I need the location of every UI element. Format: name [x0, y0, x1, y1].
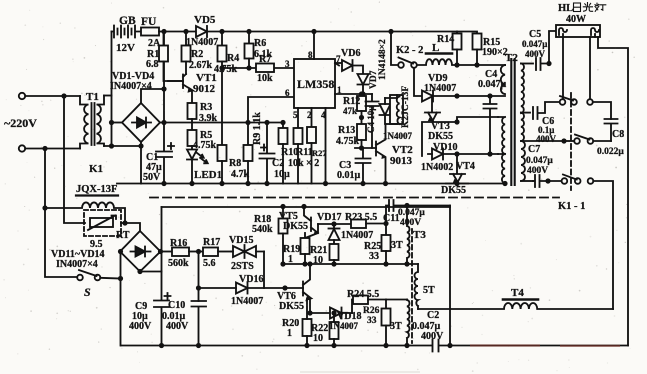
node R20 rail	[304, 343, 309, 348]
svg-text:400V: 400V	[129, 321, 152, 332]
thermistor RT dashed box	[84, 210, 121, 236]
svg-text:560k: 560k	[168, 258, 189, 269]
wire N to T1	[25, 148, 80, 150]
resistor R12	[357, 94, 366, 124]
resistor R22	[330, 313, 339, 346]
svg-text:12V: 12V	[116, 42, 135, 54]
diode VD6	[335, 60, 363, 74]
svg-text:4.75k: 4.75k	[193, 140, 217, 151]
node C2 top	[264, 120, 269, 125]
svg-text:6: 6	[285, 88, 290, 98]
diode VD17	[329, 229, 340, 241]
wire node A down to RT	[64, 96, 85, 223]
svg-text:3T: 3T	[390, 321, 402, 332]
node S join	[118, 276, 123, 281]
svg-text:1: 1	[337, 85, 342, 95]
capacitor C4	[484, 96, 497, 154]
svg-text:RT: RT	[116, 230, 130, 241]
transformer T1 primary	[80, 96, 89, 149]
svg-text:9013: 9013	[390, 155, 413, 167]
svg-text:3: 3	[285, 59, 290, 69]
wire VT2 base	[355, 147, 376, 149]
wire row2 right to C8	[593, 140, 611, 142]
capacitor C2 electrolytic	[260, 123, 275, 184]
node R22 rail	[331, 343, 336, 348]
svg-text:R27: R27	[312, 148, 327, 158]
wire row3 right to T4 line	[593, 181, 613, 309]
capacitor C6	[533, 102, 560, 119]
node R4 bottom feed	[219, 65, 224, 70]
node dc+ at y122	[161, 120, 166, 125]
op-amp pin4 wire to ground	[325, 108, 327, 184]
diode VD7	[358, 74, 369, 94]
wire T2 secondary top tap	[521, 63, 533, 65]
diode VD18	[330, 308, 352, 319]
op-amp pin2 wire to R27	[311, 108, 313, 127]
resistor R4	[218, 32, 227, 146]
node R8 gnd	[219, 181, 224, 186]
resistor R18	[279, 207, 288, 265]
node pin8 rail	[311, 29, 316, 34]
svg-text:10k: 10k	[257, 73, 273, 84]
svg-text:0.047μ: 0.047μ	[478, 79, 507, 90]
svg-text:C10: C10	[168, 300, 185, 311]
resistor R10	[279, 123, 288, 184]
svg-text:R8: R8	[229, 158, 241, 169]
wire K2 coil bottom to VT2 collector	[386, 123, 398, 125]
resistor R11	[294, 128, 303, 184]
svg-text:DK55: DK55	[279, 301, 304, 312]
wire VD9 anode from K2-2	[414, 68, 422, 96]
node R10 top	[280, 120, 285, 125]
node R2 top	[183, 29, 188, 34]
svg-text:LM358: LM358	[297, 77, 334, 91]
op-amp pin8 wire	[313, 32, 315, 60]
wire battery negative vertical x111.5	[111, 32, 113, 147]
relay K1 coil	[45, 202, 125, 223]
svg-text:4: 4	[321, 110, 326, 120]
node 3T upper top	[404, 203, 409, 208]
svg-text:50V: 50V	[143, 172, 161, 183]
svg-text:T2: T2	[505, 52, 518, 64]
transformer T3 winding 3T lower	[407, 300, 409, 346]
node 3T upper bottom	[404, 261, 409, 266]
DK55 module boundary dashed	[150, 197, 559, 199]
inductor T4	[418, 300, 613, 310]
node VD10 line x457	[454, 151, 459, 156]
wire T2 secondary bottom tap	[521, 180, 533, 182]
svg-text:FU: FU	[141, 16, 157, 28]
node VD7 cathode	[360, 91, 365, 96]
resistor R17	[203, 248, 231, 257]
wire bridge2 left down to rail	[120, 252, 122, 346]
inductor L	[417, 54, 505, 66]
svg-text:1N4007: 1N4007	[383, 131, 412, 141]
svg-text:1: 1	[287, 328, 292, 339]
node battery neg at dc-	[109, 120, 114, 125]
node R18 bottom mid-rail	[280, 261, 285, 266]
ground rail y183.5	[117, 183, 505, 185]
svg-text:R17: R17	[203, 237, 220, 248]
contact row3	[562, 175, 594, 184]
wire bridge1 left vertex	[112, 122, 123, 124]
svg-text:K1 - 1: K1 - 1	[558, 201, 585, 212]
svg-text:C7: C7	[528, 144, 540, 155]
K1-1 linkage dash line	[570, 93, 572, 190]
svg-text:0.01μ: 0.01μ	[337, 170, 361, 181]
svg-text:~220V: ~220V	[4, 116, 37, 130]
svg-text:0.047μ: 0.047μ	[398, 208, 425, 218]
node VD18 cathode R22	[331, 310, 336, 315]
wire VT6 emitter y313	[310, 312, 330, 314]
resistor R9	[244, 145, 253, 184]
svg-text:9012: 9012	[193, 83, 216, 95]
resistor R16	[172, 248, 203, 257]
node pin4 gnd	[323, 181, 328, 186]
bridge VD11-VD14	[120, 231, 161, 272]
transistor VT1 arrow fill	[188, 88, 193, 92]
node VD17 top	[331, 221, 336, 226]
terminal N (~220V bottom)	[19, 145, 25, 151]
svg-text:4.7k: 4.7k	[231, 169, 250, 180]
wire bridge1 top vertex up	[141, 89, 164, 103]
wire dc+ x164 vertical	[163, 32, 165, 152]
wire op-amp +input y68	[222, 67, 293, 69]
svg-text:IN4007×4: IN4007×4	[56, 259, 98, 270]
svg-text:1N4007: 1N4007	[424, 83, 456, 94]
bridge VD1-VD4	[122, 103, 160, 142]
node bridge2 left	[118, 249, 123, 254]
svg-text:400V: 400V	[527, 166, 548, 176]
op-amp pin7 wire	[335, 62, 342, 64]
lamp HL filament right	[591, 28, 599, 37]
switch S	[77, 270, 120, 280]
node C10 top feed	[196, 285, 201, 290]
transformer T2 primary lower winding	[498, 117, 505, 183]
fuse FU	[141, 28, 164, 36]
svg-text:C2: C2	[427, 310, 439, 321]
wire bridge1 bottom vertex down to ground rail	[140, 142, 142, 184]
svg-text:R14: R14	[437, 34, 454, 45]
capacitor C11	[389, 200, 450, 211]
node R23 out	[383, 221, 388, 226]
transistor VT4	[446, 154, 468, 184]
node B (x45 tap)	[42, 146, 47, 151]
scan smudge on rail	[470, 344, 620, 346]
node R4 top	[219, 29, 224, 34]
node R6 bottom	[246, 65, 251, 70]
svg-text:JQX-13F: JQX-13F	[76, 184, 117, 195]
wire RT right to bridge2 top	[121, 223, 140, 231]
svg-text:VD10: VD10	[433, 142, 457, 153]
transformer T1 secondary	[97, 96, 105, 147]
transformer T2 secondary winding	[521, 64, 525, 182]
node VD10 line x490	[487, 151, 492, 156]
node R12-R13 junction	[359, 115, 364, 120]
svg-text:S: S	[84, 285, 91, 299]
relay K2 coil bumps	[397, 97, 400, 125]
node R25 bottom	[383, 261, 388, 266]
node bridge1 ac bottom	[138, 143, 143, 148]
svg-text:R7: R7	[259, 54, 271, 65]
transistor VT3	[422, 96, 457, 156]
resistor R21	[330, 244, 339, 264]
svg-text:GB: GB	[119, 15, 136, 27]
wire dc+ feed to op-amp area y122	[160, 122, 283, 124]
diac VD15	[231, 245, 264, 258]
thermistor RT	[88, 216, 116, 231]
transformer T2 core	[511, 59, 514, 185]
op-amp pin1 wire	[335, 93, 372, 95]
capacitor C4b	[366, 94, 379, 148]
svg-text:DK55: DK55	[428, 131, 453, 142]
transistor VT2	[376, 124, 386, 184]
svg-text:10: 10	[313, 255, 323, 266]
svg-text:6.8: 6.8	[146, 59, 159, 70]
lamp HL tube	[556, 25, 600, 37]
svg-text:5.6: 5.6	[203, 258, 216, 269]
svg-text:3.9k: 3.9k	[199, 113, 218, 124]
svg-text:T4: T4	[511, 287, 524, 299]
svg-text:LED1: LED1	[194, 169, 222, 181]
wire T1 secondary bottom to bridge ac2	[104, 145, 141, 147]
resistor R20	[303, 299, 312, 346]
resistor R8	[218, 145, 227, 184]
svg-text:T1: T1	[86, 91, 99, 103]
node R9 gnd	[245, 181, 250, 186]
node C7 out	[545, 178, 550, 183]
diode VD10	[428, 149, 498, 160]
resistor R25	[382, 224, 391, 265]
wire lamp pin3 down to contact row1 right	[589, 37, 591, 99]
svg-text:K2JC-13F: K2JC-13F	[401, 86, 411, 128]
node T1s bottom junction	[109, 143, 114, 148]
capacitor C5	[536, 58, 549, 70]
svg-text:4.75k: 4.75k	[214, 64, 238, 75]
svg-text:C2: C2	[272, 158, 284, 169]
node 3T lower rail	[404, 343, 409, 348]
diode VD5	[196, 26, 207, 37]
svg-text:R3: R3	[200, 102, 212, 113]
svg-text:DK55: DK55	[441, 185, 466, 196]
svg-text:33: 33	[369, 251, 379, 262]
svg-text:3T: 3T	[391, 240, 403, 251]
capacitor C2 series in rail	[433, 340, 439, 352]
node LED gnd	[189, 181, 194, 186]
svg-text:VD17: VD17	[317, 212, 341, 223]
wire T1 secondary top to battery rail	[104, 95, 112, 97]
svg-text:HL: HL	[558, 3, 573, 14]
svg-text:10μ: 10μ	[274, 169, 290, 180]
lamp HL filament left	[559, 28, 567, 37]
scan speckle noise	[210, 57, 211, 58]
transformer T3 core dashed	[411, 229, 413, 343]
transformer T3 winding 3T upper	[407, 206, 409, 265]
wire bridge2 bottom to C9	[140, 271, 162, 273]
resistor R6	[245, 32, 254, 69]
svg-text:190×2: 190×2	[482, 47, 508, 58]
wire L to T1	[25, 95, 80, 97]
node R16-R17	[196, 249, 201, 254]
node C9 rail	[159, 343, 164, 348]
node C5 out	[546, 61, 551, 66]
wire VD17 leads	[333, 224, 335, 244]
node VT2 emitter gnd	[383, 181, 388, 186]
node C3 gnd	[360, 181, 365, 186]
svg-text:R23 5.5: R23 5.5	[345, 212, 377, 223]
wire K2 coil top	[385, 95, 397, 98]
svg-text:1N4007: 1N4007	[329, 321, 358, 331]
svg-text:T3: T3	[413, 229, 426, 241]
svg-text:VD16: VD16	[239, 274, 263, 285]
node K2-2 rail	[388, 29, 393, 34]
svg-text:2STS: 2STS	[231, 261, 254, 272]
transistor VT5	[304, 207, 319, 239]
capacitor C3	[356, 148, 371, 184]
svg-text:K2 - 2: K2 - 2	[396, 45, 423, 56]
svg-text:R2: R2	[191, 49, 203, 60]
wire VT5 emitter drive y224	[318, 223, 351, 225]
node C4b base join	[359, 145, 364, 150]
svg-text:1N4007: 1N4007	[341, 230, 373, 241]
capacitor C8	[605, 119, 618, 141]
node R21 bottom	[331, 261, 336, 266]
svg-text:1N4002: 1N4002	[421, 162, 453, 173]
svg-text:R6: R6	[254, 38, 266, 49]
resistor R7	[256, 64, 274, 73]
svg-text:2A: 2A	[148, 38, 161, 49]
resistor R2	[182, 32, 191, 75]
svg-text:5T: 5T	[423, 285, 435, 296]
resistor R3	[188, 103, 197, 130]
node T2 primary bottom gnd	[502, 181, 507, 186]
node R6 top	[246, 29, 251, 34]
transistor VT1	[168, 74, 193, 103]
resistor R23	[351, 220, 386, 229]
K1 JQX-13F underline	[76, 194, 118, 196]
LED1	[187, 150, 208, 184]
node VD9 out x490	[487, 93, 492, 98]
transformer T3 winding 5T	[415, 264, 419, 309]
svg-text:33: 33	[367, 316, 377, 326]
node K1 coil left	[42, 205, 47, 210]
wire dc2+ x161.5 vertical	[161, 207, 163, 346]
svg-text:IN4007×4: IN4007×4	[110, 81, 152, 92]
svg-text:R24 5.5: R24 5.5	[347, 289, 379, 300]
op-amp pin5 wire to R11	[297, 108, 299, 128]
svg-text:VD15: VD15	[229, 235, 253, 246]
node VT5 collector	[301, 204, 306, 209]
ground rail bottom y345.5	[121, 345, 628, 347]
node R15 bottom	[474, 62, 479, 67]
wire R1617 node down to C10	[198, 252, 200, 302]
svg-text:400V: 400V	[536, 134, 557, 144]
svg-text:1N4148×2: 1N4148×2	[378, 39, 388, 80]
contact row2	[574, 135, 593, 144]
resistor R26	[382, 300, 391, 346]
resistor R14	[453, 32, 462, 66]
node pin1 R12	[359, 91, 364, 96]
diode VD8	[380, 98, 391, 124]
wire dc2+ top feed y206.5	[162, 206, 451, 208]
svg-text:540k: 540k	[252, 224, 273, 235]
resistor R1	[159, 32, 183, 82]
svg-text:R9 1.1k: R9 1.1k	[252, 112, 263, 145]
svg-text:5: 5	[293, 110, 298, 120]
svg-text:R11: R11	[296, 147, 313, 158]
node R19 bottom	[302, 261, 307, 266]
wire R23 node up to C11	[386, 206, 389, 224]
resistor R13	[357, 124, 366, 148]
node R26 rail	[383, 343, 388, 348]
node C10 rail	[196, 343, 201, 348]
node VT6 collector	[307, 261, 312, 266]
wire op-amp pin6	[248, 97, 293, 145]
node VD9 out x457	[454, 93, 459, 98]
terminal L (~220V top)	[19, 93, 25, 99]
contact row1 (lamp socket)	[560, 96, 593, 105]
wire C11 out down to rail	[449, 206, 451, 346]
wire R16 input	[162, 251, 173, 253]
svg-text:0.047μ: 0.047μ	[522, 39, 547, 49]
node bridge2 bottom	[137, 269, 142, 274]
wire lamp pin2 down to contact row1	[562, 37, 564, 99]
capacitor C10	[192, 301, 207, 346]
svg-text:R26: R26	[363, 306, 380, 316]
svg-text:1: 1	[288, 254, 293, 265]
node row2 left	[561, 138, 566, 143]
node R18 top	[280, 204, 285, 209]
node L out R14	[454, 62, 459, 67]
wire +12V top rail	[164, 31, 457, 33]
node C2 gnd	[264, 181, 269, 186]
wire T2 primary top	[504, 64, 506, 66]
wire row2 left	[564, 140, 574, 142]
wire T2 secondary tap row2	[521, 140, 564, 142]
svg-text:47k: 47k	[343, 106, 357, 116]
node RT right	[122, 220, 127, 225]
transformer T1 core	[92, 103, 95, 145]
svg-text:0.047μ: 0.047μ	[526, 156, 553, 166]
svg-text:VD5: VD5	[194, 14, 216, 26]
wire node B down to switch S	[45, 149, 77, 278]
label glyph guang (光)	[583, 3, 592, 12]
svg-text:4.75k: 4.75k	[336, 136, 360, 147]
svg-text:10: 10	[313, 333, 323, 344]
op-amp U1 LM358 box	[294, 59, 335, 108]
resistor R5	[188, 130, 197, 149]
wire K2-2 left up to rail	[391, 32, 398, 66]
wire VD15 out down	[263, 252, 265, 289]
transistor VT6	[303, 264, 312, 313]
battery GB	[112, 26, 142, 38]
node C11 rail	[447, 343, 452, 348]
node pin6 tap	[245, 120, 250, 125]
svg-text:VD6: VD6	[341, 48, 360, 59]
diode VD9	[422, 91, 505, 102]
svg-text:400V: 400V	[166, 321, 189, 332]
svg-text:R4: R4	[227, 53, 239, 64]
label glyph ri (日)	[574, 3, 581, 12]
label glyph deng (灯)	[595, 3, 606, 11]
resistor R27	[307, 127, 316, 184]
node bridge2 right	[158, 249, 163, 254]
svg-text:C4 10μ: C4 10μ	[366, 106, 376, 133]
svg-text:0.022μ: 0.022μ	[597, 147, 624, 157]
capacitor C9	[154, 293, 171, 307]
wire row1 right to C8 top	[593, 102, 611, 119]
node rect+ top	[161, 86, 166, 91]
